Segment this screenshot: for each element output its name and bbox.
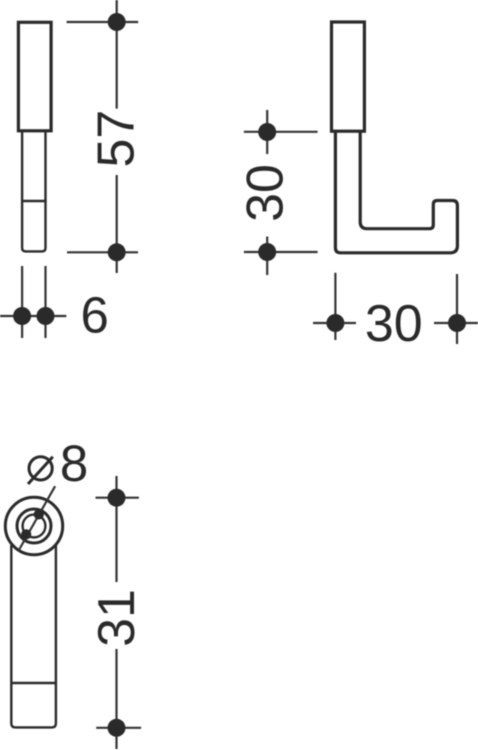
- leader dot lower: [21, 529, 31, 539]
- 57 dim top tick: [67, 21, 139, 23]
- front view shank tube: [22, 131, 45, 252]
- svg-text:31: 31: [88, 589, 146, 647]
- svg-text:8: 8: [60, 435, 88, 492]
- 31 dim top tick: [96, 497, 139, 499]
- svg-text:6: 6: [81, 287, 109, 344]
- front view shank divider: [21, 200, 47, 202]
- 30 left dim dot top: [258, 123, 276, 141]
- 6 dim dot right: [37, 307, 55, 325]
- 6 dim line: [0, 315, 66, 317]
- 57 dim line upper: [116, 0, 118, 109]
- 57 dim dot top: [108, 13, 126, 31]
- top view outer circle: [5, 497, 62, 554]
- side view hook profile: [335, 131, 457, 253]
- 6 dim extension line left: [21, 266, 23, 338]
- 30 left dim line lower: [266, 237, 268, 276]
- leader dot upper: [34, 509, 44, 519]
- svg-text:30: 30: [365, 295, 423, 353]
- 30 left dim dot bottom: [258, 243, 276, 261]
- top view body: [11, 545, 56, 727]
- diameter leader line: [20, 486, 56, 549]
- svg-text:57: 57: [88, 110, 146, 168]
- 31 dim bottom tick: [96, 727, 141, 729]
- 30 left dim line upper: [266, 110, 268, 154]
- 31 dim line upper: [115, 476, 117, 582]
- 57 dim bottom tick: [67, 251, 138, 253]
- 30 bottom dim line right: [434, 322, 478, 324]
- svg-text:30: 30: [237, 164, 295, 222]
- diameter label slash: [28, 457, 53, 484]
- 6 dim dot left: [13, 307, 31, 325]
- 30 left dim bottom tick: [244, 251, 318, 253]
- 31 dim line lower: [115, 649, 117, 749]
- 31 dim dot top: [108, 489, 126, 507]
- 30 bottom dim extension left: [334, 273, 336, 340]
- 31 dim dot bottom: [108, 719, 126, 737]
- diameter label circle: [29, 457, 52, 480]
- top view bore circle: [23, 515, 46, 538]
- 6 dim extension line right: [44, 266, 46, 338]
- 30 bottom dim line left: [313, 322, 356, 324]
- 57 dim line lower: [116, 175, 118, 273]
- 57 dim dot bottom: [108, 243, 126, 261]
- 30 bottom dim dot left: [326, 314, 344, 332]
- 30 left dim top tick: [244, 131, 318, 133]
- side view wall plate: [332, 22, 365, 131]
- top view middle circle: [17, 509, 51, 543]
- 30 bottom dim dot right: [448, 314, 466, 332]
- front view wall plate: [18, 22, 51, 131]
- top view body divider: [11, 682, 56, 684]
- 30 bottom dim extension right: [456, 274, 458, 344]
